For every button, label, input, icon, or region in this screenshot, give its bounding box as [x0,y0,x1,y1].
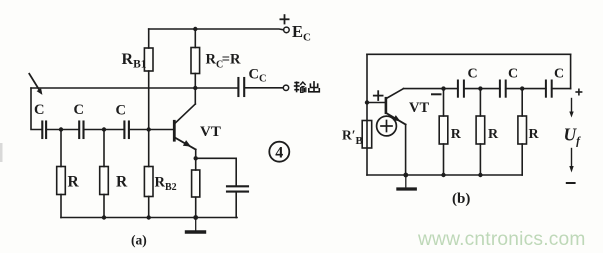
svg-text:R′B: R′B [342,128,364,148]
svg-text:4: 4 [275,145,283,162]
svg-text:R: R [488,127,499,142]
svg-text:(a): (a) [131,233,147,248]
svg-text:EC: EC [292,22,311,44]
svg-text:C: C [116,103,126,119]
svg-text:C: C [468,67,478,82]
svg-text:R: R [529,127,540,142]
svg-text:C: C [74,102,84,118]
svg-text:VT: VT [200,124,221,140]
svg-text:RB2: RB2 [155,175,177,194]
svg-text:C: C [554,67,564,82]
svg-text:(b): (b) [452,191,470,207]
svg-text:www.cntronics.com: www.cntronics.com [417,229,586,250]
svg-text:R: R [68,174,80,191]
svg-text:C: C [34,102,44,118]
svg-text:R: R [116,174,128,191]
svg-text:RC=R: RC=R [206,52,241,71]
svg-text:VT: VT [409,100,429,116]
svg-text:RB1: RB1 [122,51,147,71]
svg-text:C: C [508,67,518,82]
svg-text:CC: CC [249,67,267,85]
svg-text:Uf: Uf [564,125,582,148]
svg-text:R: R [451,127,462,142]
